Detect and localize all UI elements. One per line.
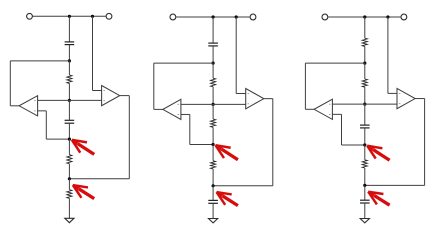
node J3 circuit 1 (arrow target) bbox=[68, 177, 71, 180]
node mid junction circuit 1 bbox=[68, 99, 71, 102]
resistor R3B (slot B) bbox=[362, 145, 367, 185]
resistor R32 (series) bbox=[362, 63, 367, 104]
node J2 circuit 1 (arrow target) bbox=[68, 138, 71, 141]
resistor R2A (slot A) bbox=[211, 104, 216, 144]
terminal T3B (right input port) bbox=[401, 14, 407, 20]
node feedback junction circuit 1 bbox=[68, 59, 71, 62]
node feedback junction circuit 3 bbox=[363, 62, 366, 65]
wire right op-amp upper input riser circuit 2 bbox=[235, 17, 237, 94]
wire left op-amp lower input stub circuit 2 bbox=[181, 113, 190, 115]
wire right op-amp upper input riser circuit 1 bbox=[92, 16, 94, 90]
capacitor C11 (top slot) bbox=[65, 16, 75, 61]
wire lower input to node circuit 2 bbox=[190, 144, 213, 146]
wire left op-amp lower input stub circuit 1 bbox=[38, 110, 47, 112]
terminal T2A (left input port) bbox=[170, 14, 176, 20]
resistor R2B (slot B) bbox=[211, 145, 216, 186]
op-amp U1B (right buffer) bbox=[102, 86, 120, 106]
node top-right junction circuit 3 bbox=[386, 15, 389, 18]
wire feedback riser circuit 3 bbox=[304, 63, 306, 109]
ground circuit 1 bbox=[65, 218, 74, 222]
red arrow A22 pointing at node J3 circuit 2 bbox=[217, 192, 238, 206]
node J2 circuit 3 (arrow target) bbox=[363, 143, 366, 146]
terminal T1B (right input port) bbox=[106, 13, 112, 19]
resistor R1B (slot B) bbox=[67, 139, 72, 179]
wire right op-amp upper input stub circuit 3 bbox=[388, 92, 397, 94]
wire feedback top circuit 3 bbox=[305, 62, 364, 64]
capacitor C3A (slot A) bbox=[360, 104, 370, 145]
wire lower input to node circuit 3 bbox=[342, 144, 365, 146]
op-amp U2B (right buffer) bbox=[246, 89, 264, 109]
wire output feedback bottom circuit 3 bbox=[365, 184, 425, 186]
wire left op-amp output circuit 3 bbox=[305, 108, 314, 110]
ground circuit 3 bbox=[360, 219, 369, 223]
red arrow A12 pointing at node J3 circuit 1 bbox=[73, 185, 94, 199]
wire output feedback riser circuit 3 bbox=[424, 99, 426, 186]
terminal T1A (left input port) bbox=[27, 13, 33, 19]
wire feedback riser circuit 2 bbox=[153, 63, 155, 109]
node J2 circuit 2 (arrow target) bbox=[212, 143, 215, 146]
wire mid rail circuit 3 bbox=[332, 103, 397, 105]
node J3 circuit 3 (arrow target) bbox=[363, 184, 366, 187]
wire right op-amp output circuit 2 bbox=[264, 98, 273, 100]
wire lower input riser circuit 1 bbox=[45, 111, 47, 139]
red arrow A31 pointing at node J2 circuit 3 bbox=[367, 146, 389, 161]
wire top rail circuit 2 bbox=[176, 16, 250, 18]
wire left op-amp output circuit 2 bbox=[154, 108, 163, 110]
node J3 circuit 2 (arrow target) bbox=[212, 184, 215, 187]
wire right op-amp upper input stub circuit 1 bbox=[93, 90, 102, 92]
node top-right junction circuit 1 bbox=[91, 15, 94, 18]
node top-left junction circuit 3 bbox=[363, 15, 366, 18]
resistor R22 (series) bbox=[211, 63, 216, 104]
resistor R1C (bottom slot) bbox=[67, 179, 72, 219]
wire right op-amp output circuit 1 bbox=[120, 95, 130, 97]
red arrow A11 pointing at node J2 circuit 1 bbox=[72, 140, 94, 155]
wire right op-amp upper input stub circuit 2 bbox=[236, 93, 246, 95]
capacitor C2C (bottom slot) bbox=[208, 186, 218, 219]
wire lower input to node circuit 1 bbox=[46, 138, 69, 140]
wire feedback riser circuit 1 bbox=[9, 61, 11, 106]
wire output feedback riser circuit 2 bbox=[272, 99, 274, 186]
wire feedback top circuit 2 bbox=[154, 62, 213, 64]
capacitor C1A (slot A) bbox=[65, 100, 75, 139]
wire lower input riser circuit 2 bbox=[189, 114, 191, 144]
wire output feedback bottom circuit 2 bbox=[213, 185, 273, 187]
red arrow A21 pointing at node J2 circuit 2 bbox=[216, 145, 238, 160]
wire right op-amp output circuit 3 bbox=[415, 98, 425, 100]
wire mid rail circuit 1 bbox=[38, 99, 102, 101]
op-amp U3A (left buffer) bbox=[314, 99, 332, 119]
wire top rail circuit 1 bbox=[32, 15, 106, 17]
terminal T2B (right input port) bbox=[250, 14, 256, 20]
red arrow A32 pointing at node J3 circuit 3 bbox=[368, 192, 389, 206]
capacitor C21 (top slot) bbox=[208, 17, 218, 63]
op-amp U3B (right buffer) bbox=[397, 88, 415, 108]
node mid junction circuit 2 bbox=[212, 103, 215, 106]
node top-right junction circuit 2 bbox=[235, 15, 238, 18]
ground circuit 2 bbox=[209, 219, 218, 223]
op-amp U1A (left buffer) bbox=[19, 96, 37, 116]
wire left op-amp lower input stub circuit 3 bbox=[332, 113, 341, 115]
node top-left junction circuit 1 bbox=[68, 15, 71, 18]
wire lower input riser circuit 3 bbox=[341, 114, 343, 145]
wire feedback top circuit 1 bbox=[10, 60, 69, 62]
wire top rail circuit 3 bbox=[328, 16, 401, 18]
capacitor C3C (bottom slot) bbox=[360, 185, 370, 218]
resistor R31 (top slot) bbox=[362, 17, 367, 63]
node mid junction circuit 3 bbox=[363, 103, 366, 106]
wire output feedback bottom circuit 1 bbox=[69, 178, 129, 180]
wire output feedback riser circuit 1 bbox=[128, 96, 130, 179]
node feedback junction circuit 2 bbox=[212, 62, 215, 65]
wire right op-amp upper input riser circuit 3 bbox=[387, 17, 389, 93]
node top-left junction circuit 2 bbox=[212, 15, 215, 18]
resistor R12 (series) bbox=[67, 61, 72, 101]
terminal T3A (left input port) bbox=[322, 14, 328, 20]
wire mid rail circuit 2 bbox=[181, 103, 246, 105]
wire left op-amp output circuit 1 bbox=[10, 105, 19, 107]
op-amp U2A (left buffer) bbox=[163, 99, 181, 119]
